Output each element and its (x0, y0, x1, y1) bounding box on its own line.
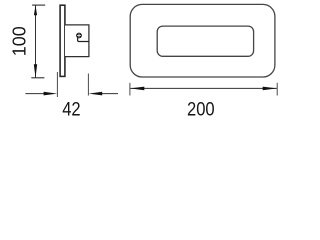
dimension 200 extension line right (276, 83, 278, 96)
cable from terminal to housing edge (78, 38, 89, 42)
dimension label 200 (187, 98, 215, 120)
dimension 42 extension line left (56, 72, 58, 97)
dimension 100 arrowhead down (34, 64, 37, 77)
front view outer body (130, 4, 275, 77)
side view housing box (65, 25, 89, 57)
side view wall plate (60, 5, 65, 76)
front view light window (157, 26, 253, 56)
dimension 100 extension tick top (32, 4, 45, 6)
dimension 42 arrowhead right pointing left (89, 92, 103, 96)
dimension 100 arrowhead up (34, 5, 37, 15)
svg-text:100: 100 (10, 26, 30, 56)
svg-text:42: 42 (62, 98, 80, 120)
dimension 200 arrowhead right (263, 87, 277, 91)
dimension 100 extension tick bottom (31, 77, 44, 79)
dimension 42 extension line right (87, 74, 89, 96)
dimension label 100 (10, 26, 30, 56)
dimension label 42 (62, 98, 80, 120)
dimension 42 arrowhead left pointing right (44, 92, 58, 96)
screw terminal symbol (76, 33, 81, 38)
dimension 42 leader line left (25, 93, 50, 95)
dimension 200 line (130, 87, 277, 89)
dimension 100 line (35, 5, 37, 78)
dimension 200 extension line left (129, 83, 131, 96)
dimension 42 leader line right (97, 93, 119, 95)
svg-text:200: 200 (187, 98, 215, 120)
dimension 200 arrowhead left (130, 87, 144, 91)
